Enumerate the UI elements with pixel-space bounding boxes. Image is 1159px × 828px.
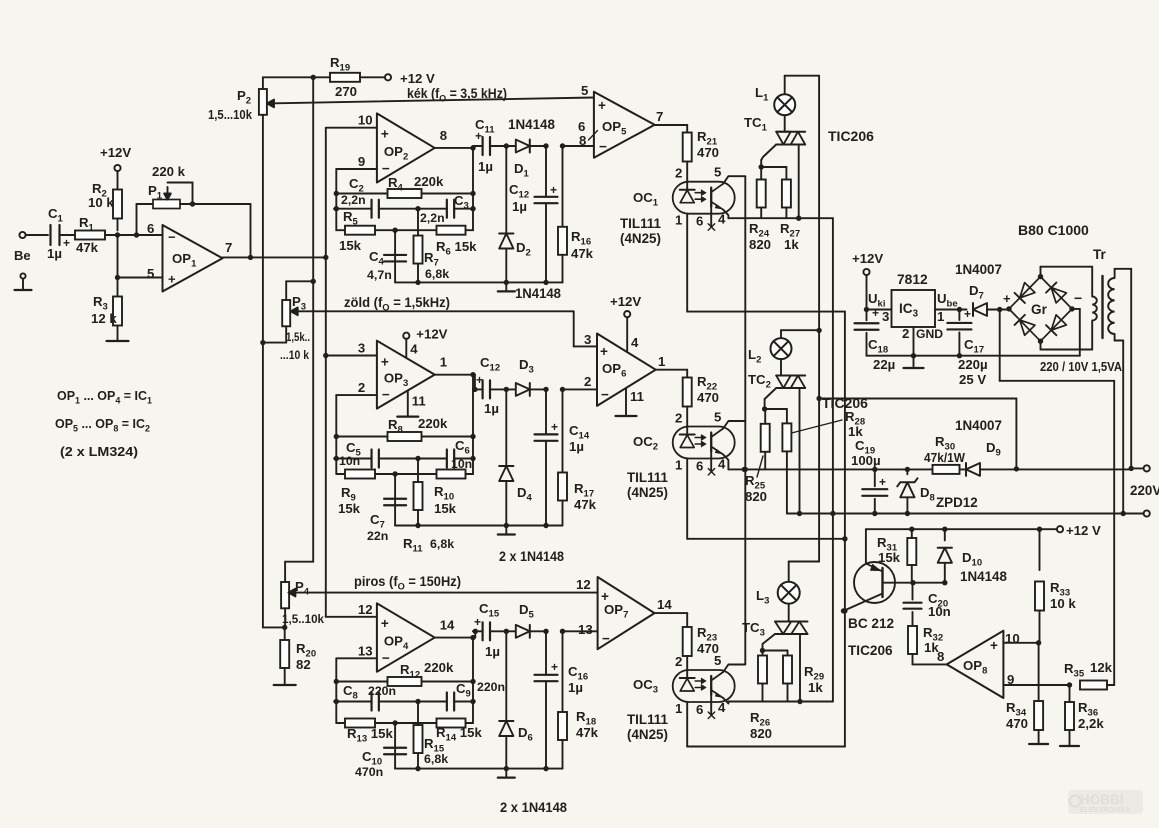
- wire pin5 row: [115, 235, 163, 280]
- resistor R5: [336, 209, 398, 253]
- resistor R23: [683, 627, 692, 656]
- wire detector to comparator ch2: [563, 388, 598, 390]
- capacitor C4: [367, 230, 406, 282]
- svg-text:15k: 15k: [434, 501, 457, 516]
- wire detector to comparator ch1: [563, 145, 594, 147]
- svg-text:1N4148: 1N4148: [508, 117, 555, 132]
- wire lamp bus to mains row: [819, 399, 1016, 469]
- capacitor C14: [535, 389, 558, 528]
- wire P4 wiper piros line: [288, 589, 597, 597]
- wire row A: [728, 467, 933, 472]
- wire IC3 out: [935, 307, 967, 312]
- wire OC3 pin1: [687, 702, 845, 747]
- svg-text:820: 820: [749, 237, 771, 252]
- ground (R34): [1029, 743, 1048, 745]
- svg-text:1: 1: [675, 213, 682, 228]
- bridge rectifier Gr outline: [1003, 274, 1082, 344]
- svg-text:6: 6: [696, 702, 703, 717]
- wire emitter row ch1: [728, 217, 833, 219]
- transistor Q1 BC212: [848, 562, 895, 658]
- svg-text:12k: 12k: [1090, 660, 1113, 675]
- svg-text:47k: 47k: [76, 240, 99, 255]
- svg-text:+: +: [598, 98, 606, 113]
- resistor R29: [763, 651, 825, 702]
- wire supply 0V rail: [867, 355, 1080, 357]
- text 1N4148 ground ch1: [515, 286, 562, 301]
- svg-text:4: 4: [410, 342, 418, 357]
- resistor R30: [924, 434, 965, 474]
- IC3 7812 regulator: [892, 272, 944, 341]
- svg-text:2: 2: [902, 326, 909, 341]
- svg-text:1µ: 1µ: [484, 401, 499, 416]
- wire collector bus: [743, 176, 748, 664]
- svg-text:+: +: [474, 615, 481, 629]
- svg-text:1k: 1k: [784, 237, 799, 252]
- capacitor C19: [851, 438, 887, 516]
- wire bridge minus to rail: [1072, 309, 1080, 356]
- ground (OP6): [616, 415, 637, 417]
- svg-text:6,8k: 6,8k: [430, 537, 454, 551]
- wire OC2 pin4: [723, 455, 728, 470]
- ground detector ch2: [498, 526, 515, 535]
- resistor R24: [749, 167, 771, 252]
- capacitor C5: [334, 440, 421, 468]
- resistor R2: [88, 171, 122, 231]
- wire opto pin1 bus: [842, 312, 847, 747]
- svg-text:+: +: [1003, 291, 1011, 306]
- input terminal Be: [14, 232, 31, 263]
- wire pot-top bus: [311, 75, 316, 562]
- svg-text:5: 5: [714, 165, 721, 180]
- svg-text:ELEKTRONIKA: ELEKTRONIKA: [1080, 807, 1131, 814]
- wire OP3 pin11: [408, 390, 426, 415]
- diode D5: [506, 625, 565, 638]
- text 2x1N4148 ch2: [499, 549, 565, 564]
- svg-text:TIL111: TIL111: [627, 470, 668, 485]
- svg-text:1,5k..: 1,5k..: [286, 330, 310, 344]
- text OC1 pins: [675, 165, 726, 229]
- svg-text:−: −: [599, 139, 607, 154]
- svg-text:Tr: Tr: [1093, 247, 1107, 262]
- svg-text:+: +: [168, 272, 176, 287]
- capacitor C17: [947, 307, 987, 387]
- +12V terminal (bottom): [1057, 523, 1101, 538]
- svg-text:2: 2: [584, 374, 591, 389]
- svg-text:82: 82: [296, 657, 311, 672]
- svg-text:+12 V: +12 V: [400, 71, 435, 86]
- svg-text:BC 212: BC 212: [848, 616, 895, 631]
- wire L2 to triac: [780, 359, 782, 375]
- text D3 label: [519, 357, 534, 376]
- text R21 labels: [697, 129, 719, 160]
- wire OC2 pin5: [723, 421, 745, 429]
- text R16 labels: [571, 229, 594, 261]
- svg-text:2,2n: 2,2n: [341, 193, 366, 207]
- svg-text:+: +: [551, 420, 558, 434]
- svg-text:2: 2: [675, 411, 682, 426]
- capacitor C15: [473, 622, 509, 640]
- svg-text:5: 5: [581, 83, 588, 98]
- wire OC1 pin5: [723, 176, 745, 184]
- svg-text:1: 1: [937, 309, 944, 324]
- +12V terminal (OP6): [610, 294, 641, 317]
- wire D7 to bridge: [1000, 309, 1010, 311]
- 220V terminal 1: [1131, 465, 1149, 471]
- svg-text:−: −: [168, 230, 176, 245]
- wire OP3 minus input to rail: [336, 395, 377, 474]
- svg-text:TIL111: TIL111: [620, 216, 661, 231]
- text TIC206 ch2: [822, 395, 868, 411]
- svg-text:GND: GND: [916, 327, 943, 341]
- svg-text:820: 820: [750, 726, 772, 741]
- svg-text:25 V: 25 V: [959, 372, 986, 387]
- +12V terminal (supply): [852, 251, 883, 275]
- opto pin6 stub OC1: [708, 208, 715, 231]
- resistor R9: [336, 470, 398, 517]
- +12V terminal (R19): [385, 71, 435, 86]
- wire C1-R1: [60, 234, 76, 236]
- wire pot-bottom bus: [260, 115, 287, 630]
- wire +12V row: [866, 527, 1057, 532]
- resistor R7: [414, 209, 450, 285]
- resistor R16: [558, 146, 567, 282]
- wire OP comparator output ch1: [655, 125, 688, 133]
- svg-text:1,5..10k: 1,5..10k: [282, 612, 324, 626]
- resistor R28: [765, 409, 866, 514]
- resistor R1: [75, 215, 105, 255]
- wire +12V to IC3: [864, 275, 892, 312]
- svg-text:1N4007: 1N4007: [955, 418, 1002, 433]
- svg-text:8: 8: [937, 649, 944, 664]
- resistor R10: [395, 470, 473, 517]
- wire OP4 output: [435, 635, 476, 640]
- svg-text:7812: 7812: [897, 272, 928, 287]
- triac TC2: [748, 372, 805, 391]
- svg-text:+: +: [879, 475, 886, 489]
- capacitor C1: [26, 206, 71, 261]
- svg-text:+12V: +12V: [610, 294, 641, 309]
- wire OP8 pin9: [1003, 682, 1072, 687]
- wire R35 to bridge plus: [1000, 310, 1114, 686]
- svg-text:1N4007: 1N4007: [955, 262, 1002, 277]
- svg-text:−: −: [1074, 290, 1082, 306]
- diode D10: [938, 529, 1008, 585]
- capacitor C2: [334, 176, 421, 218]
- resistor R35: [1064, 660, 1114, 690]
- ground (R36): [1060, 745, 1079, 747]
- wire right rail OP4: [472, 638, 474, 723]
- optocoupler OC1: [673, 182, 735, 214]
- svg-text:220 / 10V 1,5VA: 220 / 10V 1,5VA: [1040, 359, 1122, 374]
- opto pin6 stub OC2: [708, 453, 715, 476]
- svg-text:−: −: [382, 650, 390, 665]
- svg-text:B80 C1000: B80 C1000: [1018, 222, 1089, 238]
- wire P2 wiper kek line: [267, 98, 594, 108]
- svg-text:1k: 1k: [808, 680, 823, 695]
- svg-text:4: 4: [718, 700, 726, 715]
- wire primary bottom: [1115, 341, 1126, 517]
- capacitor C11: [473, 137, 509, 155]
- text C12 labels: [509, 182, 557, 214]
- op-amp OP3: [358, 341, 447, 409]
- wire OP6 pin11: [626, 389, 644, 417]
- op-amp OP6: [584, 332, 665, 406]
- svg-text:+: +: [381, 127, 389, 142]
- svg-text:220k: 220k: [414, 174, 444, 189]
- text D2 label: [516, 240, 531, 259]
- diode D6: [499, 631, 513, 771]
- svg-text:1: 1: [675, 701, 682, 716]
- svg-text:820: 820: [745, 489, 767, 504]
- lamp L1: [755, 85, 795, 115]
- svg-text:7: 7: [225, 240, 232, 255]
- svg-text:4: 4: [631, 335, 639, 350]
- resistor R20: [280, 627, 316, 685]
- svg-text:+12 V: +12 V: [1066, 523, 1101, 538]
- wire TC1 MT1: [796, 145, 801, 221]
- resistor R25: [745, 409, 770, 504]
- wire right rail OP3: [472, 375, 474, 474]
- wire bridge top to transformer: [1041, 267, 1093, 277]
- wire OP1 output: [223, 255, 329, 260]
- svg-text:Gr: Gr: [1031, 302, 1048, 317]
- capacitor C9: [418, 680, 505, 711]
- op-amp OP8: [947, 631, 1020, 698]
- text OC1 labels: [620, 190, 661, 246]
- capacitor C7: [367, 474, 406, 543]
- svg-text:22µ: 22µ: [873, 357, 895, 372]
- resistor R6: [395, 226, 477, 258]
- wire R1 to op-amp pin6: [105, 232, 163, 237]
- svg-text:1N4148: 1N4148: [960, 569, 1007, 584]
- text B80C1000: [1018, 222, 1089, 238]
- text OC3 labels: [627, 677, 668, 742]
- svg-text:+: +: [600, 344, 608, 359]
- svg-text:1,5...10k: 1,5...10k: [208, 108, 253, 122]
- optocoupler OC3: [673, 670, 735, 702]
- capacitor C6: [418, 438, 476, 471]
- ground detector ch1: [498, 282, 515, 291]
- wire base row: [913, 582, 945, 584]
- resistor R13: [336, 719, 398, 745]
- capacitor C16: [535, 631, 558, 771]
- svg-text:220µ: 220µ: [958, 357, 988, 372]
- wire emitter row ch3: [728, 701, 833, 703]
- svg-text:15k: 15k: [338, 501, 361, 516]
- wire lamp bus: [816, 76, 821, 562]
- wire OP2 output: [435, 145, 476, 150]
- svg-text:47k: 47k: [571, 246, 594, 261]
- diode D9: [955, 418, 1131, 476]
- svg-text:8: 8: [440, 128, 447, 143]
- wire OP2 minus input to rail: [336, 169, 377, 230]
- text D4 label: [517, 485, 533, 504]
- wire OP4 minus input to rail: [336, 658, 377, 723]
- transformer Tr primary: [1108, 269, 1114, 341]
- resistor R18: [558, 631, 567, 768]
- text D1 labels: [508, 117, 555, 180]
- +12V terminal (input stage): [100, 145, 131, 171]
- resistor R3: [91, 278, 122, 342]
- lamp L2: [748, 338, 792, 365]
- ground below R3: [107, 340, 129, 342]
- wire L1 to triac: [784, 115, 786, 132]
- svg-text:5: 5: [714, 410, 721, 425]
- op-amp OP5: [578, 83, 663, 158]
- svg-text:220n: 220n: [368, 684, 396, 698]
- svg-text:470: 470: [697, 145, 719, 160]
- resistor R11: [403, 459, 454, 555]
- resistor R33: [1035, 529, 1076, 643]
- svg-text:220k: 220k: [424, 660, 454, 675]
- svg-text:+: +: [381, 616, 389, 631]
- text R17 labels: [574, 481, 597, 512]
- svg-text:220k: 220k: [418, 416, 448, 431]
- wire primary top: [1115, 269, 1134, 471]
- text 220V: [1130, 483, 1159, 498]
- svg-text:−: −: [382, 161, 390, 176]
- text TIC206 ch1: [828, 128, 874, 144]
- resistor R34: [1006, 643, 1043, 744]
- wire OP2 plus input: [326, 127, 377, 129]
- wire detector rail ch3: [395, 768, 562, 770]
- text D5 label: [519, 602, 535, 621]
- svg-text:1µ: 1µ: [47, 246, 62, 261]
- op-amp OP4: [358, 602, 455, 672]
- svg-text:(4N25): (4N25): [627, 727, 668, 742]
- svg-text:+: +: [872, 306, 879, 320]
- svg-text:2: 2: [675, 166, 682, 181]
- text IC identities: [55, 388, 153, 459]
- capacitor C12: [473, 380, 509, 398]
- diode D7: [955, 262, 1002, 316]
- diode D1: [506, 140, 565, 153]
- svg-text:2 x 1N4148: 2 x 1N4148: [500, 800, 568, 815]
- svg-text:...10 k: ...10 k: [280, 348, 309, 362]
- resistor R12: [334, 660, 476, 686]
- svg-text:HOBBI: HOBBI: [1080, 792, 1124, 807]
- text 2x1N4148 ch3: [500, 800, 568, 815]
- wire BC212 collector: [841, 594, 883, 614]
- svg-text:1µ: 1µ: [569, 439, 584, 454]
- bridge diode top-left: [1015, 283, 1035, 303]
- wire OP8 pin10: [1003, 640, 1041, 645]
- resistor R22: [683, 378, 692, 407]
- text Tr: [1093, 247, 1107, 262]
- svg-text:2,2n: 2,2n: [420, 211, 445, 225]
- wire row B: [787, 510, 1150, 516]
- svg-text:3: 3: [584, 332, 591, 347]
- text Uki: [868, 291, 889, 324]
- svg-text:13: 13: [358, 643, 373, 658]
- svg-text:+: +: [381, 355, 389, 370]
- capacitor C3: [418, 193, 476, 225]
- wire L1 top: [785, 76, 819, 95]
- text C16 labels: [551, 660, 588, 695]
- svg-text:+: +: [551, 660, 558, 674]
- svg-text:−: −: [601, 387, 609, 402]
- wire OP3 output jog: [472, 375, 477, 392]
- text OC2 labels: [627, 434, 668, 500]
- text transformer rating: [1040, 359, 1122, 374]
- diode D4: [499, 389, 513, 528]
- wire OC3 pin4: [723, 698, 728, 704]
- resistor R17: [558, 389, 567, 525]
- svg-text:1k: 1k: [848, 424, 863, 439]
- svg-text:+: +: [475, 129, 482, 143]
- wire OC2 pin1: [687, 459, 847, 542]
- svg-text:6: 6: [696, 459, 703, 474]
- resistor R26: [750, 651, 772, 742]
- opto pin6 stub OC3: [708, 696, 715, 719]
- svg-text:9: 9: [358, 154, 365, 169]
- resistor R21: [683, 133, 692, 162]
- transformer core: [1101, 276, 1103, 338]
- svg-text:2: 2: [358, 380, 365, 395]
- svg-text:47k: 47k: [576, 725, 599, 740]
- svg-text:47k/1W: 47k/1W: [924, 451, 965, 465]
- bridge diode bottom-left: [1015, 315, 1035, 335]
- wire TC2 gate: [762, 388, 776, 412]
- text D6 label: [518, 725, 533, 744]
- svg-text:15k: 15k: [339, 238, 362, 253]
- wire L2 top: [781, 328, 822, 338]
- wire P1 to output node: [193, 204, 254, 260]
- svg-text:22n: 22n: [367, 529, 388, 543]
- svg-text:1µ: 1µ: [478, 159, 493, 174]
- wire signal bus: [323, 128, 328, 617]
- svg-text:−: −: [382, 387, 390, 402]
- text OC2 pins: [675, 410, 726, 474]
- wire detector to comparator ch3: [563, 630, 598, 632]
- svg-text:TIL111: TIL111: [627, 712, 668, 727]
- svg-text:12 k: 12 k: [91, 311, 117, 326]
- svg-text:1µ: 1µ: [485, 644, 500, 659]
- wire OC1 pin4: [723, 210, 728, 219]
- ground (IC3): [904, 356, 924, 368]
- wire R22 to opto: [686, 407, 688, 436]
- wire OP comparator output ch2: [655, 370, 688, 378]
- svg-text:10 k: 10 k: [1050, 596, 1076, 611]
- svg-text:+: +: [550, 183, 557, 197]
- op-amp OP1: [147, 221, 232, 292]
- svg-text:1: 1: [440, 355, 447, 370]
- resistor R27: [761, 167, 800, 252]
- text R18 labels: [576, 709, 599, 740]
- svg-text:1: 1: [658, 354, 665, 369]
- wire IC3 GND: [911, 327, 916, 358]
- resistor R4: [334, 174, 476, 198]
- capacitor C8: [334, 683, 421, 711]
- capacitor C18: [855, 306, 896, 372]
- text C15 labels: [474, 601, 500, 659]
- svg-text:ZPD12: ZPD12: [936, 495, 978, 510]
- wire R23 to opto: [686, 656, 688, 679]
- wire R21 to opto: [686, 162, 688, 191]
- wire OP4 plus input: [326, 616, 377, 618]
- zener diode D8 ZPD12: [897, 469, 977, 516]
- svg-text:470: 470: [1006, 716, 1028, 731]
- svg-text:1µ: 1µ: [512, 199, 527, 214]
- svg-text:220V: 220V: [1130, 483, 1159, 498]
- text C14 labels: [551, 420, 590, 454]
- wire OP comparator output ch3: [655, 613, 688, 627]
- potentiometer P3: [263, 281, 313, 362]
- potentiometer P1: [137, 164, 196, 235]
- svg-text:6: 6: [147, 221, 154, 236]
- resistor R14: [395, 719, 482, 744]
- wire OP3 output: [435, 372, 476, 377]
